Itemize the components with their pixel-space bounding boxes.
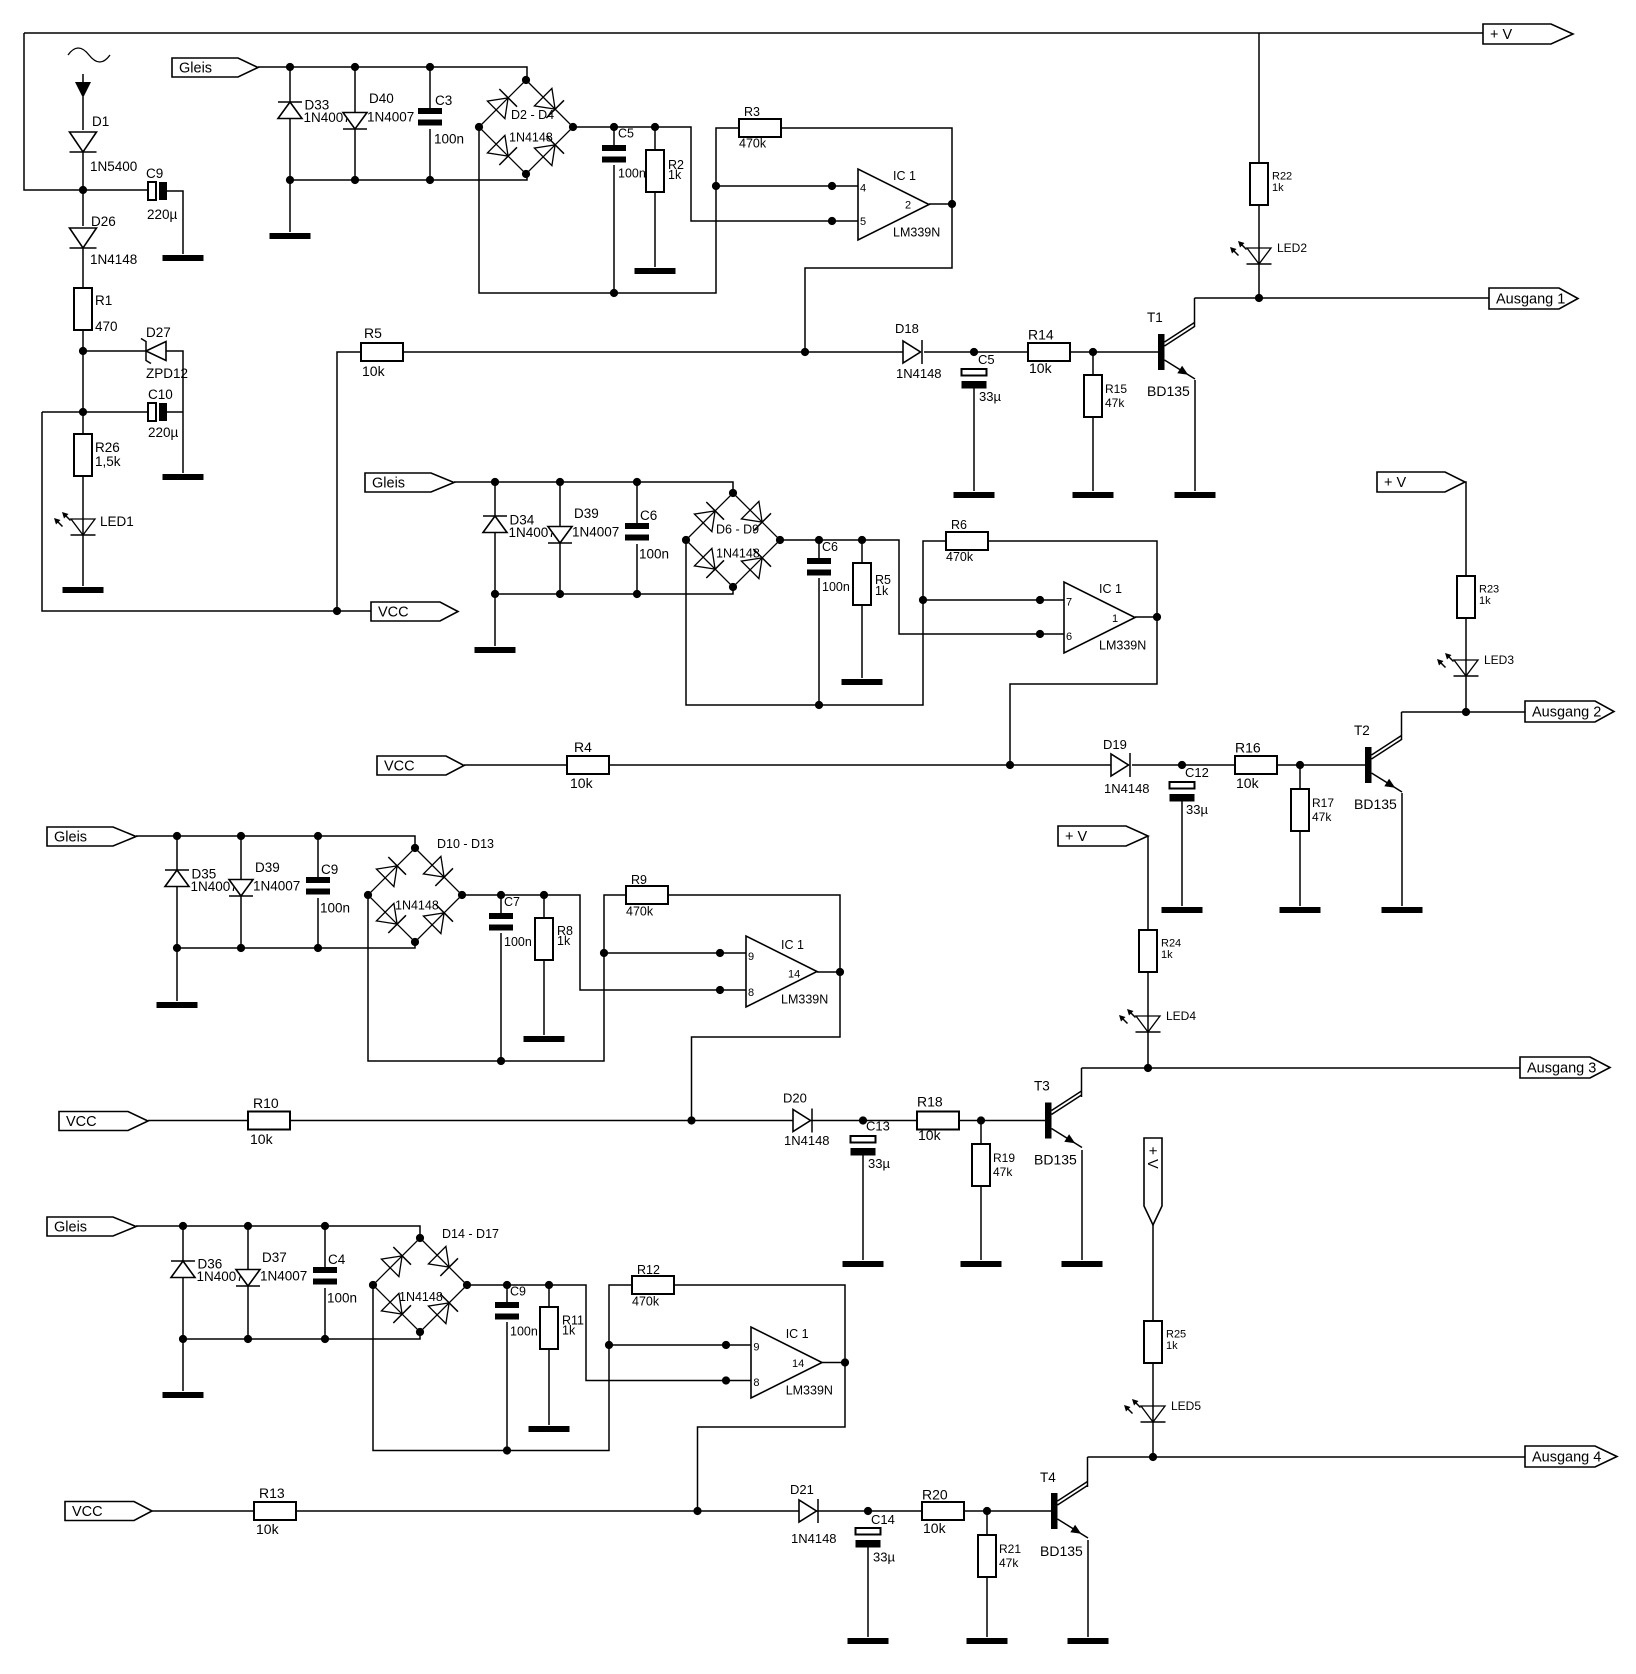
svg-text:R25: R25 <box>1166 1329 1186 1341</box>
capacitor C4 (100n) <box>313 1267 337 1285</box>
svg-text:LED1: LED1 <box>100 514 134 529</box>
svg-text:D21: D21 <box>790 1482 814 1497</box>
net tag +V (channel 4, vertical) <box>1144 1138 1162 1225</box>
junction R20/R21 <box>983 1507 991 1515</box>
wire IC1d output stub <box>822 1362 845 1364</box>
junction pin5 stub <box>828 217 836 225</box>
svg-text:R6: R6 <box>951 518 967 532</box>
wire node to R26 <box>82 412 84 434</box>
junction out3/R8 <box>540 891 548 899</box>
svg-text:1N4148: 1N4148 <box>395 899 439 913</box>
svg-text:1N5400: 1N5400 <box>90 159 137 174</box>
junction rail4/C4 <box>321 1335 329 1343</box>
svg-text:8: 8 <box>748 987 754 999</box>
transistor T1 <box>1158 323 1195 380</box>
wire T4 emitter down <box>1087 1540 1089 1637</box>
junction rail3/D35 <box>173 944 181 952</box>
wire R3 to output box <box>781 128 952 352</box>
svg-text:100n: 100n <box>327 1291 357 1306</box>
wire C6b top <box>818 540 820 558</box>
junction output3 to VCC line <box>687 1116 695 1124</box>
junction out2/C6b <box>815 536 823 544</box>
ground channel 3 input <box>157 1002 198 1008</box>
svg-text:+ V: + V <box>1144 1147 1160 1169</box>
wire C4 bottom <box>324 1288 326 1339</box>
svg-text:10k: 10k <box>918 1127 942 1143</box>
wire C9c top <box>506 1285 508 1302</box>
wire VCC to R5 <box>337 352 361 611</box>
svg-text:IC 1: IC 1 <box>781 938 804 952</box>
ground T4 <box>1068 1638 1109 1644</box>
wire Ausgang 1 line <box>1195 297 1490 299</box>
svg-text:10k: 10k <box>1029 360 1053 376</box>
svg-text:LED5: LED5 <box>1171 1399 1201 1413</box>
svg-text:R21: R21 <box>999 1542 1021 1556</box>
svg-text:1N4148: 1N4148 <box>716 547 760 561</box>
svg-text:1k: 1k <box>1166 1340 1178 1352</box>
wire R8 top <box>543 895 545 918</box>
diode D39 (ch2) <box>548 527 572 544</box>
wire LED1 to ground <box>82 535 84 586</box>
junction bridge4 bottom <box>416 1328 424 1336</box>
svg-text:D27: D27 <box>146 325 171 340</box>
wire channel1 lower rail <box>290 174 527 180</box>
junction out4/C9c <box>503 1281 511 1289</box>
wire C7 bottom to minus rail <box>500 933 502 1061</box>
svg-text:1N4148: 1N4148 <box>90 252 137 267</box>
junction rail4/D36 <box>179 1335 187 1343</box>
junction out2/R5b <box>858 536 866 544</box>
svg-text:D19: D19 <box>1103 737 1127 752</box>
svg-text:D2 - D4: D2 - D4 <box>511 108 554 122</box>
svg-text:Ausgang 2: Ausgang 2 <box>1532 704 1601 720</box>
diode D39 (ch3) <box>229 880 253 897</box>
ground C13 <box>843 1261 884 1267</box>
svg-text:+ V: + V <box>1490 27 1512 43</box>
net tag Ausgang 4 <box>1525 1446 1617 1467</box>
svg-text:VCC: VCC <box>66 1114 97 1130</box>
svg-text:47k: 47k <box>1312 810 1332 824</box>
junction bridge3 left <box>364 891 372 899</box>
wire +V3 to R24 <box>1147 836 1149 930</box>
capacitor C14 (33u) <box>856 1528 881 1548</box>
svg-text:R18: R18 <box>917 1094 943 1110</box>
svg-text:T4: T4 <box>1040 1470 1056 1485</box>
net tag Ausgang 2 <box>1525 701 1614 722</box>
svg-text:BD135: BD135 <box>1354 796 1397 812</box>
bridge rectifier D6-D9 <box>686 493 780 587</box>
ground D27/C10 <box>163 474 204 480</box>
bridge rectifier D14-D17 <box>373 1238 467 1332</box>
svg-text:1: 1 <box>1112 613 1118 625</box>
junction bridge2 right <box>776 536 784 544</box>
wire T4 collector up <box>1087 1457 1089 1487</box>
svg-text:R20: R20 <box>922 1487 948 1503</box>
svg-text:LM339N: LM339N <box>786 1384 833 1398</box>
junction out/R2 <box>651 123 659 131</box>
wire R1 to zener node <box>82 330 84 351</box>
svg-text:D20: D20 <box>783 1091 807 1106</box>
svg-text:R5: R5 <box>364 325 382 341</box>
net tag +V (top) <box>1483 24 1573 44</box>
svg-text:1N4148: 1N4148 <box>791 1531 837 1546</box>
junction bridge4 left <box>369 1281 377 1289</box>
junction feedback4/pin9b <box>605 1341 613 1349</box>
resistor R1 <box>74 288 92 330</box>
svg-text:14: 14 <box>792 1358 804 1370</box>
wire D35 top <box>176 836 178 870</box>
junction minus rail3/C7 <box>497 1057 505 1065</box>
wire +V4 to R25 <box>1152 1225 1154 1321</box>
wire D39b top <box>240 836 242 880</box>
wire D39 bottom <box>559 543 561 594</box>
wire R15 to ground <box>1092 417 1094 491</box>
svg-text:C7: C7 <box>504 895 520 909</box>
diode D20 <box>793 1109 812 1133</box>
junction pin9 stub <box>716 949 724 957</box>
net tag Ausgang 3 <box>1520 1057 1610 1078</box>
resistor R21 <box>978 1535 996 1577</box>
ground R11 <box>529 1426 570 1432</box>
wire node to C9 <box>83 189 148 191</box>
wire T3 emitter down <box>1081 1150 1083 1260</box>
svg-text:Ausgang 3: Ausgang 3 <box>1527 1060 1596 1076</box>
wire Ausgang 3 line <box>1082 1067 1521 1069</box>
resistor R2 <box>646 150 664 192</box>
net tag +V (channel 3) <box>1058 826 1148 846</box>
wire channel3 lower rail <box>177 942 415 948</box>
wire bridge2 minus feedback <box>686 540 946 705</box>
wire R25 to LED5 <box>1152 1363 1154 1422</box>
resistor R20 (10k) <box>922 1502 964 1520</box>
junction R18/R19 <box>977 1116 985 1124</box>
zener diode D27 <box>141 339 166 364</box>
wire R19 to ground <box>980 1186 982 1260</box>
wire C5 bottom to minus rail <box>613 165 615 293</box>
svg-text:100n: 100n <box>639 547 669 562</box>
junction rail3/D39b <box>237 944 245 952</box>
svg-text:220µ: 220µ <box>148 425 179 440</box>
wire VCC2 line <box>464 764 1111 766</box>
wire R12 to output box <box>674 1285 845 1511</box>
wire D39b bottom <box>240 896 242 948</box>
capacitor C3 (100n) <box>418 108 442 126</box>
wire C10 to ground vertical <box>167 411 183 413</box>
svg-text:D10 - D13: D10 - D13 <box>437 837 494 851</box>
svg-text:470k: 470k <box>626 905 654 919</box>
capacitor C5 (33u) <box>962 369 987 389</box>
junction LED4/Ausgang3 <box>1144 1064 1152 1072</box>
wire R15 top <box>1092 352 1094 375</box>
wire VCC4 line <box>152 1510 1051 1512</box>
junction minus rail4/C9c <box>503 1446 511 1454</box>
wire D33 top <box>289 67 291 102</box>
junction bridge1 right <box>569 123 577 131</box>
svg-text:R26: R26 <box>95 440 120 455</box>
wire C3 bottom <box>429 129 431 180</box>
diode D21 <box>799 1499 818 1523</box>
diode D35 <box>165 870 189 887</box>
svg-text:1k: 1k <box>557 934 571 948</box>
svg-text:7: 7 <box>1066 597 1072 609</box>
capacitor C10 (220u) <box>148 403 167 421</box>
wire R16 to T2 base <box>1277 764 1365 766</box>
svg-text:Ausgang 1: Ausgang 1 <box>1496 291 1565 307</box>
ground channel 4 input <box>163 1392 204 1398</box>
junction pin8 stub <box>716 986 724 994</box>
wire bridge4 out <box>467 1285 751 1381</box>
wire IC1b output stub <box>1135 616 1157 618</box>
current direction arrow <box>75 74 91 98</box>
svg-text:10k: 10k <box>923 1520 947 1536</box>
svg-text:C13: C13 <box>866 1119 890 1134</box>
svg-text:2: 2 <box>905 200 911 212</box>
wire pin4 input <box>716 185 858 187</box>
capacitor C13 (33u) <box>851 1136 876 1156</box>
wire C4 top <box>324 1226 326 1267</box>
wire R22 to LED2 <box>1258 205 1260 264</box>
wire D36 top <box>182 1226 184 1261</box>
wire R2 to ground <box>654 192 656 267</box>
junction out4/R11 <box>545 1281 553 1289</box>
junction bridge2 left <box>682 536 690 544</box>
wire R2 top <box>654 127 656 150</box>
svg-text:470k: 470k <box>946 550 974 564</box>
junction LED5/Ausgang4 <box>1149 1453 1157 1461</box>
junction Gleis4/C4 <box>321 1222 329 1230</box>
junction bridge4 top <box>416 1234 424 1242</box>
junction feedback3/pin9 <box>600 949 608 957</box>
svg-text:Gleis: Gleis <box>372 475 405 491</box>
wire D36 ground drop <box>182 1339 184 1391</box>
svg-text:47k: 47k <box>1105 396 1125 410</box>
junction rail4/D37 <box>244 1335 252 1343</box>
junction rail/C3 <box>426 176 434 184</box>
svg-text:100n: 100n <box>320 901 350 916</box>
junction rail2/D39 <box>556 590 564 598</box>
resistor R19 <box>972 1144 990 1186</box>
wire left frame (AC input to D1/C9 node) <box>24 33 83 190</box>
wire T1 emitter down <box>1194 380 1196 491</box>
junction pin8b stub <box>722 1376 730 1384</box>
wire bridge4 minus feedback <box>373 1285 632 1451</box>
wire R5b top <box>861 540 863 563</box>
junction output to D18 line <box>801 348 809 356</box>
svg-text:Gleis: Gleis <box>179 60 212 76</box>
svg-text:Gleis: Gleis <box>54 829 87 845</box>
wire Gleis 1 rail <box>258 67 527 80</box>
svg-text:C10: C10 <box>148 387 173 402</box>
svg-text:R22: R22 <box>1272 171 1292 183</box>
svg-text:D37: D37 <box>262 1250 287 1265</box>
wire LED3 to Ausgang2 <box>1465 676 1467 712</box>
junction bridge1 left <box>475 123 483 131</box>
svg-text:R4: R4 <box>574 739 592 755</box>
ground R17 <box>1280 907 1321 913</box>
svg-text:+ V: + V <box>1384 475 1406 491</box>
wire R17 to ground <box>1299 831 1301 906</box>
wire bridge3 minus feedback <box>368 895 626 1061</box>
svg-text:33µ: 33µ <box>1186 802 1208 817</box>
diode D36 <box>171 1261 195 1278</box>
svg-text:T2: T2 <box>1354 723 1370 738</box>
wire Ausgang 4 line <box>1088 1456 1526 1458</box>
resistor R24 <box>1139 930 1157 972</box>
wire R17 top <box>1299 765 1301 789</box>
svg-text:220µ: 220µ <box>147 207 178 222</box>
wire C9c bottom to minus rail <box>506 1322 508 1451</box>
resistor R16 (10k) <box>1235 756 1277 774</box>
svg-text:1k: 1k <box>562 1324 576 1338</box>
capacitor C12 (33u) <box>1170 782 1195 802</box>
wire T2 emitter down <box>1401 793 1403 906</box>
junction bridge3 bottom <box>411 938 419 946</box>
svg-text:1N4148: 1N4148 <box>896 366 942 381</box>
wire D39 top <box>559 482 561 527</box>
resistor R10 (10k) <box>248 1112 290 1130</box>
svg-text:9: 9 <box>748 951 754 963</box>
wire D37 top <box>247 1226 249 1270</box>
svg-text:R15: R15 <box>1105 382 1127 396</box>
resistor R3 (470k) <box>739 119 781 137</box>
svg-text:R1: R1 <box>95 293 112 308</box>
wire +V top rail <box>24 32 1483 34</box>
svg-text:VCC: VCC <box>378 604 409 620</box>
net tag +V (channel 2) <box>1377 472 1465 492</box>
ground LED1 <box>63 587 104 593</box>
wire LED5 to Ausgang4 <box>1152 1422 1154 1457</box>
junction Gleis4/D36 <box>179 1222 187 1230</box>
junction D19/C12 <box>1178 761 1186 769</box>
resistor R23 <box>1457 576 1475 618</box>
svg-text:1N4007: 1N4007 <box>572 525 619 540</box>
wire zener node down to C10 node <box>82 351 84 412</box>
svg-text:10k: 10k <box>570 775 594 791</box>
net tag Gleis (channel 1) <box>172 58 258 77</box>
svg-text:R14: R14 <box>1028 327 1054 343</box>
wire R5b to ground <box>861 605 863 678</box>
ground C9 <box>163 255 204 261</box>
resistor R18 (10k) <box>917 1112 959 1130</box>
wire C6b bottom to minus rail <box>818 578 820 705</box>
resistor R26 <box>74 434 92 476</box>
wire C5 top <box>613 127 615 145</box>
wire Gleis 3 rail <box>136 836 415 848</box>
diode D37 <box>236 1270 260 1287</box>
wire C5-33u ground drop <box>973 388 975 491</box>
junction Gleis2/D34 <box>491 478 499 486</box>
junction feedback2/pin7 <box>919 596 927 604</box>
ground channel 2 input <box>475 647 516 653</box>
svg-text:1N4148: 1N4148 <box>399 1290 443 1304</box>
svg-text:T3: T3 <box>1034 1079 1050 1094</box>
ground T3 <box>1062 1261 1103 1267</box>
wire IC1c output stub <box>817 971 840 973</box>
wire R24 to LED4 <box>1147 972 1149 1032</box>
svg-text:D18: D18 <box>895 321 919 336</box>
junction bridge2 bottom <box>729 583 737 591</box>
ground C5-33u <box>954 492 995 498</box>
wire LED2 to Ausgang1 <box>1258 264 1260 298</box>
net tag Gleis (channel 2) <box>365 473 454 492</box>
svg-text:IC 1: IC 1 <box>786 1327 809 1341</box>
junction D18/C5-33u <box>970 348 978 356</box>
junction output4 to VCC line <box>693 1507 701 1515</box>
svg-text:D39: D39 <box>574 506 599 521</box>
svg-text:1k: 1k <box>1161 949 1173 961</box>
net tag VCC (channel 1) <box>371 602 458 621</box>
svg-text:100n: 100n <box>822 580 850 594</box>
svg-text:T1: T1 <box>1147 310 1163 325</box>
diode D1 <box>70 132 97 152</box>
wire R8 to ground <box>543 960 545 1035</box>
svg-text:1k: 1k <box>1479 595 1491 607</box>
wire R21 to ground <box>986 1577 988 1637</box>
ground T1 <box>1175 492 1216 498</box>
capacitor C5 (100n) <box>602 145 626 163</box>
LED LED5 <box>1124 1399 1166 1422</box>
ground R8 <box>524 1036 565 1042</box>
diode D40 <box>343 113 367 130</box>
wire R19 top <box>980 1121 982 1145</box>
wire D18 to R14 <box>924 351 1028 353</box>
wire node to C10 <box>83 411 148 413</box>
wire R11 top <box>548 1285 550 1307</box>
resistor R4 (10k) <box>567 756 609 774</box>
wire C6 bottom <box>636 544 638 594</box>
svg-text:LED3: LED3 <box>1484 653 1514 667</box>
wire channel2 lower rail <box>495 588 733 594</box>
svg-text:R13: R13 <box>259 1485 285 1501</box>
LED LED1 <box>54 512 96 535</box>
svg-text:100n: 100n <box>510 1325 538 1339</box>
junction rail2/D34 <box>491 590 499 598</box>
junction Gleis2/D39 <box>556 478 564 486</box>
wire D35 ground drop <box>176 948 178 1001</box>
junction output2 to VCC line <box>1006 761 1014 769</box>
junction bridge3 right <box>458 891 466 899</box>
svg-text:1,5k: 1,5k <box>95 454 121 469</box>
ground R21 <box>967 1638 1008 1644</box>
net tag VCC (channel 3) <box>59 1112 148 1131</box>
svg-text:4: 4 <box>860 183 866 195</box>
wire node to D26 <box>82 190 84 226</box>
transistor T3 <box>1045 1091 1082 1148</box>
wire T1 collector up <box>1194 298 1196 327</box>
resistor R5 (10k) <box>361 343 403 361</box>
junction Gleis1/D33 <box>286 63 294 71</box>
junction bridge3 top <box>411 844 419 852</box>
svg-text:33µ: 33µ <box>979 389 1001 404</box>
junction pin7 stub <box>1036 596 1044 604</box>
resistor R9 (470k) <box>626 886 668 904</box>
resistor R11 <box>540 1307 558 1349</box>
svg-text:R9: R9 <box>631 873 647 887</box>
op-amp IC1d <box>751 1327 822 1398</box>
svg-text:VCC: VCC <box>384 758 415 774</box>
svg-text:1k: 1k <box>875 584 889 598</box>
svg-text:100n: 100n <box>504 935 532 949</box>
svg-text:10k: 10k <box>1236 775 1260 791</box>
svg-text:5: 5 <box>860 216 866 228</box>
junction R1/D27 <box>79 347 87 355</box>
resistor R17 <box>1291 789 1309 831</box>
op-amp IC1a <box>858 169 929 240</box>
svg-text:R17: R17 <box>1312 796 1334 810</box>
junction Gleis3/C9b <box>314 832 322 840</box>
wire D34 top <box>494 482 496 516</box>
resistor R5 (1k) <box>853 563 871 605</box>
